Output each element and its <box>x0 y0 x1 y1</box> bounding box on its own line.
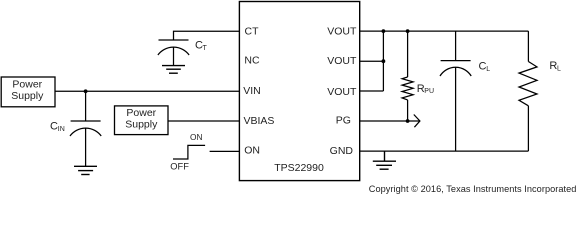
label CIN <box>50 121 65 133</box>
wire ON pin <box>210 150 240 152</box>
svg-text:L: L <box>486 66 490 73</box>
wire VBIAS <box>168 120 239 122</box>
label RPU <box>417 83 434 95</box>
svg-text:C: C <box>479 61 487 73</box>
IC U1 TPS22990 body <box>239 2 359 181</box>
wire VOUT3 <box>360 90 384 92</box>
label RL <box>549 60 561 73</box>
node junction CIN <box>84 89 88 93</box>
wire VOUT bus vertical <box>382 31 384 91</box>
svg-text:Copyright © 2016, Texas Instru: Copyright © 2016, Texas Instruments Inco… <box>369 184 577 194</box>
svg-text:ON: ON <box>190 132 202 142</box>
svg-text:Supply: Supply <box>11 90 44 102</box>
capacitor CL <box>440 31 471 151</box>
wire down to CIN <box>85 91 87 121</box>
wire CT pin to CT capacitor <box>174 31 240 40</box>
power supply box 2 <box>115 106 169 135</box>
svg-text:L: L <box>557 66 561 73</box>
svg-text:OFF: OFF <box>170 162 189 172</box>
svg-text:ON: ON <box>244 144 260 156</box>
node dot RPU top <box>406 29 410 33</box>
svg-text:NC: NC <box>244 55 260 67</box>
svg-text:GND: GND <box>330 145 354 157</box>
resistor RL <box>519 31 537 151</box>
svg-text:VBIAS: VBIAS <box>244 115 275 127</box>
node dot PG/RPU junction <box>406 119 410 123</box>
ON/OFF waveform annotation <box>173 145 205 159</box>
svg-text:C: C <box>50 121 58 133</box>
svg-text:Power: Power <box>12 79 42 91</box>
capacitor CIN <box>70 121 101 166</box>
svg-text:CT: CT <box>245 26 260 38</box>
label CL <box>479 61 491 74</box>
arrowhead PG <box>414 115 420 128</box>
wire GND bottom rail <box>360 150 529 152</box>
svg-text:VIN: VIN <box>243 85 261 97</box>
wire VIN <box>55 90 239 92</box>
ground below CT cap <box>162 66 185 74</box>
svg-text:TPS22990: TPS22990 <box>274 162 324 174</box>
svg-text:VOUT: VOUT <box>327 55 357 67</box>
node dot bus mid <box>382 59 386 63</box>
svg-text:PU: PU <box>424 88 434 95</box>
svg-text:T: T <box>203 45 208 52</box>
resistor RPU <box>402 31 413 121</box>
svg-text:Supply: Supply <box>125 118 158 130</box>
svg-text:VOUT: VOUT <box>327 86 357 98</box>
node dot bus top <box>382 29 386 33</box>
wire PG with arrow <box>360 120 420 122</box>
svg-text:PG: PG <box>336 115 351 127</box>
label CT cap <box>195 40 208 52</box>
svg-text:IN: IN <box>58 126 65 133</box>
power supply box 1 <box>1 77 55 107</box>
ground below CIN <box>74 166 97 174</box>
wire VOUT top rail <box>360 30 529 32</box>
svg-text:Power: Power <box>126 107 156 119</box>
svg-text:VOUT: VOUT <box>327 26 357 38</box>
capacitor CT <box>158 40 189 66</box>
ground at GND pin <box>373 151 396 169</box>
wire VOUT2 <box>360 60 384 62</box>
